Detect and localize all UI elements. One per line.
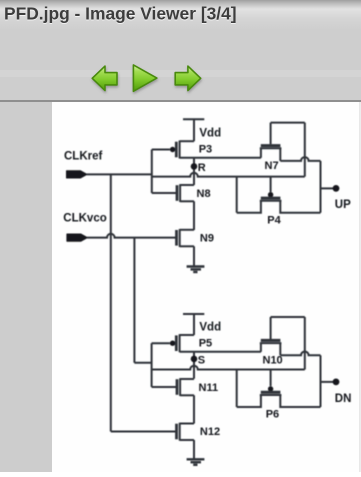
svg-text:N12: N12: [200, 426, 220, 438]
wire: P4 left column up to CLKref row: [236, 177, 238, 213]
transistor N12: [177, 423, 195, 441]
wire: CLKvco branch corner: [134, 362, 151, 364]
svg-text:S: S: [198, 354, 205, 366]
white canvas: [52, 102, 361, 472]
wire: N11 to N12 column: [193, 395, 195, 423]
wire: N8 gate wire: [152, 192, 176, 194]
svg-text:N11: N11: [199, 382, 219, 394]
P4 right terminal: [280, 201, 320, 213]
P6 channel bar: [260, 394, 282, 396]
ground (top half): [187, 267, 205, 273]
transistor N11: [177, 378, 194, 396]
wire: N10 gate stem: [270, 317, 272, 339]
wire: CLKvco branch down: [133, 238, 135, 363]
wire: N10 right row with hop over loop vertical: [280, 352, 320, 356]
N12 top terminal: [180, 423, 194, 425]
P6 gate bubble: [268, 386, 273, 391]
wire: CLKref vertical (gates of P3,N8): [151, 150, 153, 194]
wire: CLKvco row with hop over CLKref branch: [87, 234, 176, 238]
svg-text:P4: P4: [267, 215, 281, 227]
N11 gate bar: [176, 379, 179, 395]
wire: DN tap: [321, 381, 334, 383]
P5 top terminal: [180, 334, 194, 336]
wire: P3 gate wire: [152, 149, 170, 151]
transistor N8: [177, 184, 194, 202]
wire: right vertical (DN node): [320, 355, 322, 407]
svg-text:R: R: [198, 162, 206, 174]
wire: N8 to N9 column: [193, 201, 195, 230]
svg-text:P5: P5: [199, 337, 212, 349]
node S dot: [191, 356, 198, 363]
N8 bottom terminal: [180, 200, 194, 202]
P4 gate bubble: [268, 192, 273, 197]
transistor P6: [237, 386, 321, 407]
N12 bottom terminal: [180, 439, 194, 441]
svg-text:UP: UP: [335, 199, 351, 211]
P6 gate bar: [261, 391, 281, 394]
P4 channel bar: [260, 200, 282, 202]
transistor P4: [237, 192, 321, 213]
wire: P3 drain row to N7 left terminal: [180, 157, 261, 159]
node R dot: [191, 163, 198, 170]
window chrome: title bar: [0, 0, 361, 30]
N8 gate bar: [176, 185, 179, 201]
N9 gate bar: [175, 230, 178, 246]
wire: P5 gate wire: [152, 342, 170, 344]
transistor N7: [260, 146, 282, 161]
N7 right terminal: [279, 148, 281, 161]
wire: corner up to N10 gate loop: [304, 317, 306, 370]
P3 gate bubble: [170, 147, 175, 152]
P5 gate bar: [175, 335, 178, 351]
P6 right terminal: [280, 395, 320, 407]
wire: UP tap: [321, 187, 334, 189]
P4 gate bar: [261, 197, 281, 200]
P3 gate bar: [175, 142, 178, 158]
wire: corner up to N7 gate loop: [304, 123, 306, 177]
wire Vdd stem (bottom): [193, 314, 195, 335]
P4 left terminal: [237, 201, 261, 213]
wire: N9 drain to ground stem: [193, 246, 195, 266]
wire: node R column: [193, 158, 195, 185]
N11 channel bar: [179, 378, 181, 396]
svg-text:N8: N8: [197, 188, 211, 200]
P5 channel bar: [179, 334, 181, 352]
N8 channel bar: [179, 184, 181, 202]
toolbar faint groove: [0, 70, 361, 77]
wire: P4 gate stem: [270, 177, 272, 192]
P6 left terminal: [237, 395, 261, 407]
wire: CLKref input row: [87, 173, 152, 175]
wire: N7 right row with hop over loop vertical: [280, 157, 320, 161]
N10 left terminal: [260, 343, 262, 352]
N10 right terminal: [279, 343, 281, 355]
wire: long CLKref row with hop over node R column: [152, 173, 305, 177]
toolbar icon: play triangle: [133, 65, 157, 91]
N12 channel bar: [179, 423, 181, 441]
svg-text:CLKref: CLKref: [64, 151, 103, 163]
svg-text:DN: DN: [335, 393, 352, 405]
P3 channel bar: [179, 141, 181, 159]
canvas right faint edge: [359, 102, 360, 472]
Vdd supply bar (bottom): [183, 313, 204, 315]
N10 channel bar: [260, 342, 282, 344]
wire: P5 drain row to N10 left terminal: [180, 351, 261, 353]
wire: P6 gate stem: [270, 370, 272, 387]
wire: N7 gate stem: [270, 123, 272, 145]
wire: N7 gate loop top: [271, 122, 305, 124]
N7 channel bar: [260, 147, 282, 149]
toolbar bottom border: [0, 100, 361, 102]
svg-text:Vdd: Vdd: [199, 128, 221, 140]
N9 channel bar: [179, 229, 181, 247]
toolbar icon: back arrow: [92, 66, 117, 91]
P5 gate bubble: [170, 341, 175, 346]
transistor P5: [170, 334, 194, 352]
wire: N11 gate wire: [152, 386, 177, 388]
content left gray strip: [0, 102, 52, 472]
transistor N10: [260, 340, 282, 355]
N12 gate bar: [175, 424, 178, 440]
N11 top terminal: [180, 378, 194, 380]
wire: long CLKvco row with hop over node S column: [152, 366, 305, 370]
wire: P6 left column up to CLKvco row: [236, 370, 238, 408]
svg-text:CLKvco: CLKvco: [63, 212, 106, 224]
wire: CLKref branch down to N12 gate (hops CLKvco row): [110, 174, 112, 431]
N9 bottom terminal: [180, 245, 194, 247]
wire Vdd stem: [193, 119, 195, 141]
Vdd supply bar (top): [183, 118, 204, 120]
wire: N12 gate wire (from CLKref branch): [111, 431, 176, 433]
svg-text:P3: P3: [199, 144, 212, 156]
wire: N10 gate loop top: [271, 316, 305, 318]
N10 gate bar: [261, 339, 281, 342]
wire: node S column: [193, 352, 195, 379]
wire: right vertical (UP node): [320, 161, 322, 213]
svg-text:N9: N9: [200, 233, 214, 245]
toolbar background: [0, 30, 361, 102]
N7 left terminal: [260, 148, 262, 158]
svg-text:P6: P6: [266, 408, 279, 420]
svg-text:Vdd: Vdd: [199, 322, 221, 334]
wire: CLKvco vertical (gates of P5,N11): [151, 343, 153, 387]
N9 top terminal: [180, 229, 194, 231]
DN terminal dot: [333, 379, 340, 386]
UP terminal dot: [333, 185, 340, 192]
svg-text:N7: N7: [265, 160, 279, 172]
ground (bottom half): [187, 459, 205, 465]
N8 top terminal: [180, 184, 194, 186]
input pad CLKvco: [67, 234, 87, 241]
P3 top terminal: [180, 140, 194, 142]
N11 bottom terminal: [180, 394, 194, 396]
svg-text:N10: N10: [263, 355, 283, 367]
transistor P3: [170, 141, 194, 159]
title text: [4, 3, 237, 24]
wire: N12 drain to ground stem: [193, 440, 195, 459]
N7 gate bar: [261, 144, 281, 147]
svg-text:PFD.jpg - Image Viewer [3/4]: PFD.jpg - Image Viewer [3/4]: [4, 3, 237, 23]
toolbar icon: forward arrow: [175, 66, 201, 91]
input pad CLKref: [67, 171, 87, 178]
transistor N9: [177, 229, 195, 247]
